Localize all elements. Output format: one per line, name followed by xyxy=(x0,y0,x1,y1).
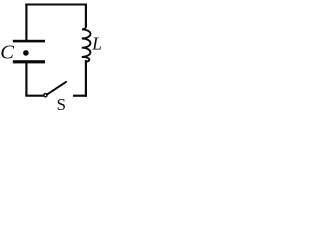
wire left upper xyxy=(25,4,27,41)
wire right lower xyxy=(85,60,87,97)
wire left lower xyxy=(25,63,27,96)
capacitor C1 top plate xyxy=(13,40,45,43)
inductor L coil xyxy=(82,25,91,62)
wire bottom right xyxy=(73,95,86,97)
svg-text:L: L xyxy=(91,34,101,54)
svg-text:C: C xyxy=(0,42,14,64)
switch S blade (open) xyxy=(47,82,66,94)
node dot (charge) xyxy=(23,50,29,56)
wire bottom left xyxy=(25,95,43,97)
capacitor C1 bottom plate xyxy=(13,60,45,63)
switch S pivot xyxy=(44,94,47,97)
wire right upper xyxy=(85,4,87,27)
svg-text:S: S xyxy=(57,95,66,111)
wire top xyxy=(25,3,86,5)
